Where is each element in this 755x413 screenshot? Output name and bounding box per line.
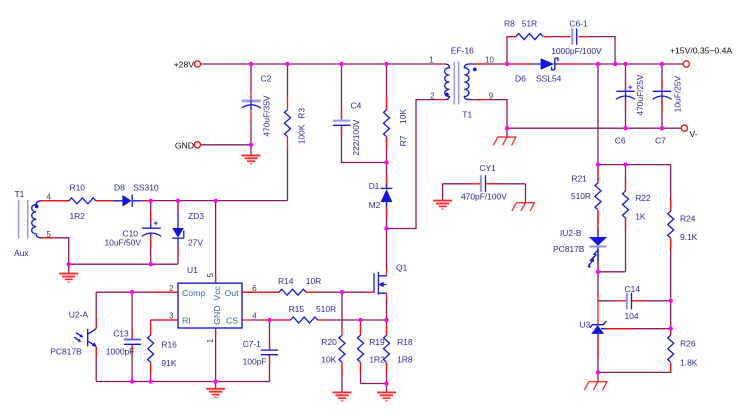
transformer T1 Aux core bbox=[18, 200, 20, 239]
pin stub U3 ref bbox=[605, 328, 633, 330]
node source CS bbox=[384, 318, 388, 322]
svg-text:Aux: Aux bbox=[14, 248, 29, 258]
svg-text:1R8: 1R8 bbox=[397, 355, 413, 365]
transformer T1 core bbox=[453, 62, 455, 105]
pin stub U1 top bbox=[215, 275, 217, 283]
wire U2-A emitter bbox=[95, 347, 97, 382]
svg-text:9: 9 bbox=[489, 91, 494, 100]
node ref divider bbox=[669, 327, 673, 331]
svg-text:T1: T1 bbox=[15, 189, 25, 199]
node +28V C4 bbox=[339, 62, 343, 66]
wire LED cathode down bbox=[597, 249, 599, 272]
wire aux pin5 down bbox=[42, 238, 69, 264]
wire aux ground stub bbox=[68, 264, 70, 273]
svg-text:C4: C4 bbox=[351, 100, 362, 110]
pin stub R21 bbox=[597, 169, 599, 223]
wire V- rail bbox=[507, 127, 681, 129]
wire C7 bottom bbox=[661, 100, 663, 128]
wire R24 bottom to ref node bbox=[670, 238, 672, 335]
ground earth under U1 GND bbox=[206, 389, 225, 397]
wire R20 top bbox=[341, 292, 343, 328]
wire aux ground rail bbox=[69, 263, 178, 265]
wire R3 top bbox=[287, 64, 289, 97]
node C13 top bbox=[130, 290, 134, 294]
node C13 bottom bbox=[130, 379, 134, 383]
wire C4 bottom to R7 node bbox=[342, 126, 387, 163]
pin stub CY1 bbox=[470, 183, 497, 185]
svg-text:10: 10 bbox=[485, 56, 494, 65]
node R19 top bbox=[358, 318, 362, 322]
diode D6 schottky bbox=[532, 63, 558, 65]
capacitor C2 bbox=[242, 100, 261, 103]
svg-text:R15: R15 bbox=[289, 304, 305, 314]
wire R7 top bbox=[386, 64, 388, 110]
svg-text:91K: 91K bbox=[161, 358, 176, 368]
svg-text:R22: R22 bbox=[635, 193, 651, 203]
svg-text:PC817B: PC817B bbox=[50, 347, 82, 357]
svg-text:RI: RI bbox=[182, 315, 191, 325]
node D1 anode bbox=[384, 226, 388, 230]
svg-text:5: 5 bbox=[47, 230, 52, 239]
ground chassis at T1 pin9 node bbox=[493, 137, 516, 145]
wire R14 to Q1 gate bbox=[306, 291, 366, 293]
svg-text:Q1: Q1 bbox=[396, 262, 408, 272]
wire C13 bottom bbox=[131, 345, 133, 382]
svg-text:C6-1: C6-1 bbox=[569, 19, 588, 29]
wire C10 top bbox=[150, 201, 152, 223]
pin stub C14 bbox=[617, 300, 642, 302]
svg-text:U3: U3 bbox=[580, 320, 591, 330]
ground earth under C2 bbox=[242, 155, 261, 163]
pin stub R20 bbox=[341, 328, 343, 375]
resistor R20 bbox=[339, 335, 345, 362]
pin stub T1 pin9 bbox=[474, 99, 484, 101]
wire C7 top bbox=[661, 64, 663, 91]
node C10 bottom bbox=[149, 262, 153, 266]
transformer T1 primary winding bbox=[445, 64, 450, 100]
capacitor C14 bbox=[626, 293, 628, 310]
svg-text:1R2: 1R2 bbox=[70, 211, 86, 221]
wire snubber right leg bbox=[579, 37, 615, 64]
pin stub R26 bbox=[670, 329, 672, 371]
wire C7-1 bottom corner to GND rail bbox=[96, 355, 269, 382]
pin stub R16 bbox=[150, 324, 152, 374]
pin stub aux pin5 bbox=[42, 237, 56, 239]
wire T1 pin10 to snubber node bbox=[474, 63, 532, 65]
pin stub U3 cathode bbox=[597, 293, 599, 324]
node LED cathode bbox=[596, 270, 600, 274]
resistor R21 bbox=[595, 183, 601, 210]
svg-text:1000pF: 1000pF bbox=[106, 347, 135, 357]
svg-text:T1: T1 bbox=[462, 109, 472, 119]
pin stub D8 bbox=[106, 200, 151, 202]
svg-text:D6: D6 bbox=[515, 73, 526, 83]
capacitor C13 bbox=[124, 339, 141, 341]
node C4 R7 bbox=[384, 160, 388, 164]
resistor R19 bbox=[358, 335, 364, 362]
svg-text:27V: 27V bbox=[188, 237, 203, 247]
svg-text:2: 2 bbox=[169, 284, 174, 293]
svg-text:2: 2 bbox=[430, 91, 435, 100]
svg-text:R3: R3 bbox=[297, 108, 307, 119]
svg-text:CY1: CY1 bbox=[479, 163, 496, 173]
node R18 R19 gnd bbox=[384, 381, 388, 385]
node U1 gnd rail bbox=[213, 379, 217, 383]
wire T1 pin2 loop to D1 anode bbox=[387, 100, 438, 229]
wire ZD3 top bbox=[177, 201, 179, 212]
svg-text:R20: R20 bbox=[321, 337, 337, 347]
svg-text:1000pF/100V: 1000pF/100V bbox=[551, 46, 602, 56]
resistor R8 bbox=[516, 34, 543, 40]
pin stub T1 pin2 bbox=[437, 99, 445, 101]
wire R18 top bbox=[386, 320, 388, 335]
capacitor C4 bbox=[333, 120, 350, 122]
svg-text:U2-A: U2-A bbox=[69, 310, 89, 320]
wire GND port to C2 bbox=[201, 144, 252, 146]
svg-text:C6: C6 bbox=[615, 135, 626, 145]
wire U1 CS to R15 bbox=[251, 319, 291, 321]
svg-text:9.1K: 9.1K bbox=[680, 232, 698, 242]
svg-text:D8: D8 bbox=[114, 183, 125, 193]
resistor R7 bbox=[384, 110, 390, 137]
zener ZD3 bbox=[177, 212, 179, 247]
wire U1 Vcc column bbox=[215, 201, 217, 283]
pin stub U1 right bbox=[242, 292, 251, 320]
svg-text:R19: R19 bbox=[369, 337, 385, 347]
transformer T1 Aux winding bbox=[32, 201, 42, 238]
svg-text:C7: C7 bbox=[655, 135, 666, 145]
svg-text:3: 3 bbox=[169, 312, 174, 321]
wire C2 top bbox=[250, 64, 252, 92]
svg-text:GND: GND bbox=[175, 140, 194, 150]
svg-text:SSL54: SSL54 bbox=[536, 73, 562, 83]
svg-text:1.8K: 1.8K bbox=[680, 357, 698, 367]
wire T1 pin9 down bbox=[474, 100, 507, 129]
node +28V R7 bbox=[384, 62, 388, 66]
svg-text:C7-1: C7-1 bbox=[243, 339, 262, 349]
node Vcc top bbox=[213, 199, 217, 203]
pin stub R22 bbox=[625, 179, 627, 230]
pin stub D1 bbox=[386, 174, 388, 219]
wire R20 bottom to ground bbox=[341, 363, 343, 393]
pin stub C13 bbox=[131, 329, 133, 355]
svg-text:470pF/100V: 470pF/100V bbox=[461, 191, 507, 201]
pin stub R7 bbox=[386, 97, 388, 150]
node C7 top bbox=[660, 62, 664, 66]
svg-text:+28V: +28V bbox=[174, 60, 195, 70]
node U3 anode gnd bbox=[596, 370, 600, 374]
svg-text:510R: 510R bbox=[316, 304, 336, 314]
wire R7 bottom to D1 bbox=[386, 137, 388, 188]
node +28V C2 bbox=[249, 62, 253, 66]
diode D1 bbox=[386, 184, 388, 207]
svg-text:PC817B: PC817B bbox=[553, 244, 585, 254]
ground earth under R18 R19 bbox=[377, 392, 396, 400]
pin stub C6-1 bbox=[561, 36, 589, 38]
wire R10 to D8 bbox=[96, 200, 114, 202]
wire feedback top rail bbox=[598, 164, 671, 166]
node R21 top bbox=[596, 162, 600, 166]
wire ZD3 bottom bbox=[177, 247, 179, 264]
svg-text:4: 4 bbox=[47, 193, 52, 202]
port +15V output bbox=[683, 61, 689, 67]
resistor R3 bbox=[285, 110, 291, 137]
wire bottom-right chassis stub bbox=[597, 372, 599, 381]
wire U3 anode bbox=[597, 336, 599, 372]
svg-text:10K: 10K bbox=[398, 109, 408, 124]
pin stub C7-1 bbox=[269, 340, 271, 365]
wire C7-1 top bbox=[269, 320, 271, 350]
ground earth under aux winding bbox=[59, 274, 78, 282]
resistor R26 bbox=[668, 335, 674, 362]
wire U2-A collector bbox=[95, 292, 97, 328]
wire U1 Comp line bbox=[96, 291, 178, 293]
wire R19 top bbox=[360, 320, 362, 335]
svg-text:100pF: 100pF bbox=[243, 356, 267, 366]
ground chassis under CY1 right bbox=[512, 203, 535, 211]
wire R18 R19 join to ground bbox=[361, 384, 387, 393]
pin stub T1 pin1 bbox=[437, 63, 445, 65]
svg-text:GND: GND bbox=[212, 305, 222, 324]
pin stub R24 bbox=[670, 198, 672, 251]
svg-text:IU2-B: IU2-B bbox=[560, 228, 582, 238]
diode D8 bbox=[114, 200, 141, 202]
svg-text:470uF/35V: 470uF/35V bbox=[261, 95, 271, 137]
resistor R24 bbox=[668, 211, 674, 238]
wire R22 bottom bbox=[598, 218, 626, 272]
capacitor CY1 bbox=[480, 175, 482, 192]
svg-text:V-: V- bbox=[690, 129, 698, 139]
svg-text:CS: CS bbox=[226, 315, 238, 325]
pin stub T1 pin10 bbox=[474, 63, 484, 65]
wire D8 cathode net to R3 corner bbox=[141, 200, 288, 202]
svg-text:Comp: Comp bbox=[182, 288, 205, 298]
svg-text:R21: R21 bbox=[571, 173, 587, 183]
transformer T1 Aux polarity dot bbox=[35, 205, 39, 209]
svg-text:SS310: SS310 bbox=[133, 183, 159, 193]
pin stub U1 bottom bbox=[215, 328, 217, 337]
port V- bbox=[681, 125, 687, 131]
svg-text:R7: R7 bbox=[398, 135, 408, 146]
svg-text:R26: R26 bbox=[680, 339, 696, 349]
pin stub IU2-B bbox=[597, 211, 599, 272]
transistor Q1 bbox=[373, 273, 375, 292]
wire C13 top bbox=[131, 292, 133, 339]
wire R15 to source node bbox=[318, 319, 387, 321]
svg-text:1: 1 bbox=[429, 56, 434, 65]
wire D1 anode down to node bbox=[386, 202, 388, 268]
pin stub aux pin4 bbox=[42, 200, 60, 202]
svg-text:R8: R8 bbox=[504, 19, 515, 29]
pin stub U2-A bbox=[95, 318, 97, 358]
capacitor C7-1 bbox=[261, 349, 278, 351]
wire C6 bottom bbox=[625, 100, 627, 128]
pin stub ZD3 bbox=[177, 205, 179, 257]
svg-text:C14: C14 bbox=[625, 284, 641, 294]
node C14 right bbox=[669, 299, 673, 303]
svg-text:C13: C13 bbox=[113, 328, 129, 338]
wire R21 to LED bbox=[597, 211, 599, 235]
svg-text:R14: R14 bbox=[278, 276, 294, 286]
svg-text:510R: 510R bbox=[571, 191, 591, 201]
resistor R18 bbox=[384, 335, 390, 362]
wire U1 RI line bbox=[151, 319, 178, 321]
node C10 top bbox=[149, 199, 153, 203]
ground chassis bottom right bbox=[584, 382, 607, 390]
wire U1 GND column bbox=[215, 328, 217, 389]
svg-text:EF-16: EF-16 bbox=[451, 46, 474, 56]
node snubber left bbox=[505, 62, 509, 66]
node C7-1 top bbox=[267, 318, 271, 322]
svg-text:Vcc: Vcc bbox=[212, 285, 222, 300]
wire R16 bottom bbox=[150, 363, 152, 382]
capacitor C6-1 bbox=[571, 29, 573, 45]
svg-text:U1: U1 bbox=[187, 265, 198, 275]
node aux gnd bbox=[67, 262, 71, 266]
svg-text:51R: 51R bbox=[522, 19, 537, 29]
wire C14 right bbox=[632, 300, 671, 302]
svg-text:C2: C2 bbox=[261, 74, 272, 84]
wire D6 cathode to +15V port bbox=[556, 63, 683, 65]
svg-text:+15V/0.35~0.4A: +15V/0.35~0.4A bbox=[670, 46, 732, 56]
wire CY1 left bbox=[443, 184, 470, 201]
pin stub C7 bbox=[661, 79, 663, 112]
node C7 bottom bbox=[660, 126, 664, 130]
pin stub C10 bbox=[150, 211, 152, 249]
pin stub R18 bbox=[386, 325, 388, 374]
svg-text:1R2: 1R2 bbox=[369, 355, 385, 365]
node snubber right bbox=[613, 62, 617, 66]
svg-text:10R: 10R bbox=[306, 276, 321, 286]
svg-text:10uF/25V: 10uF/25V bbox=[673, 75, 683, 112]
resistor R10 bbox=[69, 198, 96, 204]
wire R26 bottom to ground rail bbox=[598, 363, 671, 373]
resistor R16 bbox=[148, 335, 154, 362]
svg-text:4: 4 bbox=[252, 312, 257, 321]
svg-text:222/100V: 222/100V bbox=[351, 119, 361, 155]
capacitor C10 bbox=[142, 227, 161, 229]
wire aux pin4 to R10 bbox=[42, 200, 69, 202]
svg-text:100K: 100K bbox=[297, 124, 307, 144]
svg-text:104: 104 bbox=[625, 311, 639, 321]
op-amp U1 body bbox=[178, 283, 242, 328]
svg-text:ZD3: ZD3 bbox=[188, 211, 204, 221]
transformer T1 secondary winding bbox=[464, 64, 474, 100]
svg-text:470uF/25V: 470uF/25V bbox=[635, 74, 645, 116]
svg-text:6: 6 bbox=[252, 284, 257, 293]
wire pin9 chassis stub bbox=[506, 128, 508, 137]
transformer T1 secondary dot bbox=[473, 68, 477, 72]
node C6 bottom bbox=[623, 126, 627, 130]
transformer T1 primary dot bbox=[445, 93, 449, 97]
wire U3 ref to divider bbox=[605, 328, 670, 330]
wire R8 to C6-1 bbox=[544, 36, 571, 38]
resistor R22 bbox=[623, 191, 629, 218]
wire C14 left bbox=[598, 300, 617, 302]
pin stub C4 bbox=[341, 109, 343, 137]
pin stub R15 bbox=[263, 319, 326, 321]
wire snubber left leg bbox=[507, 37, 516, 64]
wire Q1 source to CS node bbox=[386, 301, 388, 320]
node GND C2 bbox=[249, 143, 253, 147]
pin stub C6 bbox=[625, 79, 627, 112]
node feedback tap bbox=[596, 62, 600, 66]
pin stub R19 bbox=[360, 325, 362, 374]
svg-text:10uF/50V: 10uF/50V bbox=[105, 237, 142, 247]
ground earth under CY1 left bbox=[433, 201, 452, 209]
svg-text:D1: D1 bbox=[369, 181, 380, 191]
wire R16 top bbox=[150, 320, 152, 335]
port GND bbox=[194, 142, 200, 148]
svg-text:5: 5 bbox=[206, 272, 215, 277]
pin stub R10 bbox=[61, 200, 107, 202]
svg-text:R18: R18 bbox=[397, 337, 413, 347]
svg-text:1K: 1K bbox=[635, 212, 646, 222]
node R22 top bbox=[623, 162, 627, 166]
wire R18 bottom bbox=[386, 363, 388, 384]
pin stub U3 anode bbox=[597, 336, 599, 358]
svg-text:Out: Out bbox=[225, 288, 240, 298]
wire C2 bottom to ground node bbox=[250, 122, 252, 156]
wire R3 bottom to Vcc net bbox=[287, 150, 289, 201]
wire U1 Out to R14 bbox=[251, 291, 280, 293]
resistor R14 bbox=[279, 289, 306, 295]
svg-text:R16: R16 bbox=[161, 339, 177, 349]
wire +28V rail bbox=[201, 63, 438, 65]
pin stub R14 bbox=[242, 291, 315, 293]
ground earth under R20 bbox=[333, 392, 352, 400]
node +28V R3 bbox=[285, 62, 289, 66]
wire R24 top bbox=[670, 165, 672, 211]
LED IU2-B bbox=[597, 229, 599, 265]
wire C6 top bbox=[625, 64, 627, 91]
pin stub U1 left bbox=[151, 292, 179, 320]
pin stub R3 bbox=[287, 97, 289, 151]
pin stub R8 bbox=[507, 36, 552, 38]
wire C4 top bbox=[341, 64, 343, 120]
svg-text:R10: R10 bbox=[70, 182, 86, 192]
svg-text:10K: 10K bbox=[321, 355, 336, 365]
node C6 top bbox=[623, 62, 627, 66]
node gate bbox=[340, 290, 344, 294]
wire CY1 right bbox=[487, 184, 526, 203]
node R16 bottom bbox=[148, 379, 152, 383]
wire C10 bottom bbox=[150, 236, 152, 264]
capacitor C6 bbox=[616, 90, 634, 92]
transistor U2-A bbox=[87, 329, 89, 347]
pin stub C2 bbox=[250, 91, 252, 122]
node pin9 gnd bbox=[505, 126, 509, 130]
pin stub Q1 bbox=[366, 268, 387, 301]
svg-text:1: 1 bbox=[206, 338, 215, 343]
resistor R15 bbox=[291, 317, 318, 323]
wire feedback column from +15V bbox=[597, 64, 599, 183]
svg-text:R24: R24 bbox=[680, 213, 696, 223]
wire U3 cathode column bbox=[597, 272, 599, 293]
shunt regulator U3 bbox=[591, 325, 604, 334]
port +28V bbox=[194, 61, 200, 67]
capacitor C7 bbox=[653, 90, 671, 92]
pin stub D6 bbox=[510, 63, 580, 65]
node ZD3 top bbox=[176, 199, 180, 203]
wire R19 bottom bbox=[360, 363, 362, 384]
svg-text:M2: M2 bbox=[369, 200, 381, 210]
wire R22 top bbox=[625, 165, 627, 191]
